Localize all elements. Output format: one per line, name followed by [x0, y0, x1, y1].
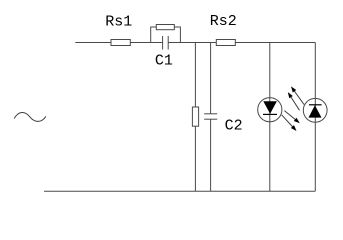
resistor R2 (vertical): [192, 107, 198, 126]
LED D1 circle: [258, 98, 282, 122]
AC source V1 (sine squiggle): [14, 112, 46, 121]
emission arrows of LED D2 (pointing up-left): [288, 86, 304, 110]
wire LED1 branch: [269, 43, 271, 192]
wire C1 parallel branch (risers + top run): [151, 27, 181, 43]
wire top main left segment: [75, 42, 162, 44]
resistor R (parallel with C1): [156, 25, 174, 30]
LED D2 circle: [303, 98, 327, 122]
LED D2 triangle (cathode up): [309, 105, 322, 117]
LED D2 cathode bar: [309, 104, 322, 106]
svg-text:Rs1: Rs1: [105, 14, 132, 31]
wire vertical branch R: [194, 43, 196, 192]
capacitor C2: [204, 43, 217, 192]
capacitor C1: [163, 36, 169, 50]
svg-text:C1: C1: [155, 52, 173, 69]
LED D1 cathode bar: [263, 113, 277, 115]
resistor Rs1: [111, 40, 130, 46]
LED D1 triangle (cathode down): [263, 101, 277, 114]
wire right branch LED2: [314, 43, 316, 192]
emission arrows of LED D1 (pointing down-right): [282, 111, 300, 131]
svg-text:C2: C2: [225, 118, 243, 135]
svg-text:Rs2: Rs2: [210, 13, 237, 30]
resistor Rs2: [216, 40, 235, 46]
wire bottom main: [44, 190, 315, 192]
wire top main right segment: [168, 42, 315, 44]
